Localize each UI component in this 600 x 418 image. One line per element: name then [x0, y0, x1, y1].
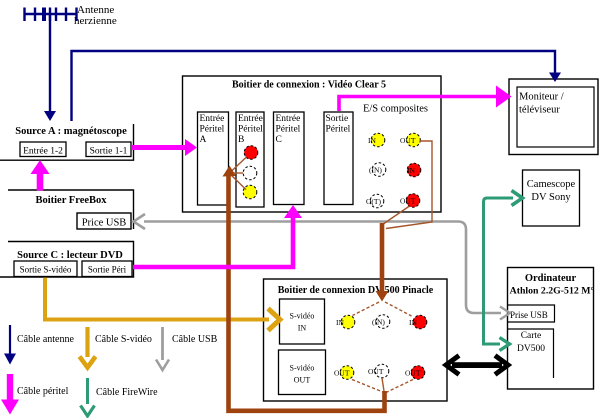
svg-text:OUT: OUT	[368, 367, 384, 376]
svg-text:Sortie 1-1: Sortie 1-1	[90, 147, 128, 157]
wire: magenta peritel cable Sortie Peri to VideoClear bottom	[133, 217, 293, 267]
svg-text:Péritel: Péritel	[238, 125, 263, 135]
connector red composite OUT right	[406, 194, 420, 208]
svg-text:Camescope: Camescope	[527, 179, 576, 190]
svg-text:Moniteur /: Moniteur /	[519, 92, 564, 103]
connector red RCA at Entree B	[244, 146, 258, 160]
svg-text:(IN): (IN)	[372, 318, 385, 327]
svg-text:Prise USB: Prise USB	[510, 310, 548, 320]
connector white RCA at Entree B	[243, 166, 257, 180]
svg-text:Sortie S-vidéo: Sortie S-vidéo	[20, 265, 72, 275]
connector yellow composite OUT right	[407, 133, 421, 147]
svg-text:B: B	[238, 135, 244, 145]
brown arrowhead up into VideoClear B jacks	[223, 166, 237, 177]
wire: magenta peritel cable Sortie Peritel to Moniteur	[339, 97, 497, 112]
svg-text:IN: IN	[409, 318, 417, 327]
svg-text:Péritel: Péritel	[326, 125, 351, 135]
svg-text:DV Sony: DV Sony	[531, 192, 571, 203]
connector white RCA DV500 (IN)	[376, 315, 390, 329]
box Moniteur / televiseur outer	[509, 79, 598, 155]
svg-text:Câble antenne: Câble antenne	[17, 334, 74, 345]
svg-text:E/S composites: E/S composites	[363, 104, 428, 115]
svg-text:Entrée 1-2: Entrée 1-2	[23, 147, 63, 157]
svg-text:Câble S-vidéo: Câble S-vidéo	[95, 334, 152, 345]
box Sortie 1-1	[86, 142, 131, 157]
svg-text:O(T): O(T)	[366, 197, 381, 206]
svg-text:(IN): (IN)	[369, 166, 382, 175]
svg-text:Sortie: Sortie	[326, 114, 349, 124]
gold arrowhead at S-video IN	[268, 309, 280, 331]
box Sortie S-video	[14, 261, 77, 277]
svg-text:OUT: OUT	[400, 197, 416, 206]
brown arrowhead down into DV500	[376, 291, 389, 302]
box Entree Peritel A	[198, 112, 229, 205]
box Moniteur / televiseur inner	[517, 87, 594, 147]
box Prise USB Ordinateur	[508, 305, 555, 322]
svg-text:IN: IN	[298, 324, 307, 333]
wire: magenta peritel cable Sortie 1-1 to Entree Peritel A	[132, 145, 186, 150]
svg-text:S-vidéo: S-vidéo	[290, 312, 315, 321]
wire: brown composite cable VideoClear OUT to DV500 IN	[353, 141, 433, 316]
legend: navy cable antenne arrow	[9, 325, 11, 355]
svg-text:Câble péritel: Câble péritel	[17, 386, 69, 397]
box Prise USB FreeBox	[77, 213, 131, 229]
box Entree 1-2	[20, 142, 66, 157]
svg-text:Athlon 2.2G-512 M°: Athlon 2.2G-512 M°	[510, 286, 595, 297]
box Boitier de connexion Video Clear 5	[183, 76, 442, 212]
svg-text:C: C	[276, 135, 282, 145]
svg-text:Source A : magnétoscope: Source A : magnétoscope	[15, 126, 127, 137]
svg-text:Péritel: Péritel	[276, 125, 301, 135]
box Source C lecteur DVD (partial)	[0, 242, 134, 278]
wire: navy antenna feed down to Source A	[49, 14, 51, 113]
svg-text:Entrée: Entrée	[200, 114, 225, 124]
black bidirectional cable DV500 to Ordinateur	[452, 362, 502, 368]
svg-text:Source C : lecteur DVD: Source C : lecteur DVD	[17, 250, 123, 261]
box Entree Peritel B	[236, 112, 264, 207]
wire: brown composite cable DV500 OUT to VideoClear Entree B	[229, 157, 414, 411]
svg-text:Ordinateur: Ordinateur	[525, 273, 577, 284]
svg-text:S-vidéo: S-vidéo	[290, 364, 315, 373]
connector yellow RCA at Entree B	[243, 185, 257, 199]
connector red composite IN right	[407, 163, 421, 177]
svg-text:Sortie Péri: Sortie Péri	[88, 265, 127, 275]
svg-text:IN: IN	[336, 318, 344, 327]
svg-text:herzienne: herzienne	[74, 15, 117, 27]
box S-video OUT	[279, 350, 326, 395]
box Boitier de connexion DV 500 Pinacle	[264, 279, 448, 401]
connector white composite (OUT) left	[370, 194, 384, 208]
wire: teal FireWire cable Camescope to Carte DV500	[484, 198, 514, 344]
connector yellow RCA DV500 IN	[341, 315, 355, 329]
connector yellow composite IN left	[371, 133, 385, 147]
connector yellow RCA DV500 OUT	[340, 366, 354, 380]
svg-text:téléviseur: téléviseur	[519, 105, 560, 116]
wire: gold S-video cable Source C to DV500	[45, 278, 269, 320]
box Entree Peritel C	[274, 112, 305, 205]
svg-text:Carte: Carte	[521, 331, 542, 341]
connector red RCA DV500 OUT	[411, 366, 425, 380]
box Camescope DV Sony	[523, 170, 580, 226]
svg-text:A: A	[200, 135, 207, 145]
gray arrowhead at Prise USB (FreeBox)	[134, 214, 146, 229]
legend: gray cable USB arrow	[161, 327, 164, 360]
svg-text:Entrée: Entrée	[238, 114, 263, 124]
legend: teal cable FireWire arrow	[86, 378, 89, 404]
connector white RCA DV500 OUT	[375, 364, 389, 378]
wire: gray USB cable FreeBox to Ordinateur	[144, 222, 501, 314]
box Carte DV500	[508, 329, 554, 378]
box Boitier FreeBox (partial)	[8, 190, 134, 229]
svg-text:Boitier FreeBox: Boitier FreeBox	[35, 195, 107, 206]
antenne hertzienne symbol	[24, 8, 78, 22]
box Ordinateur	[508, 268, 594, 390]
svg-text:Entrée: Entrée	[276, 114, 301, 124]
wire: navy RF cable Source A to Moniteur	[72, 51, 556, 121]
svg-text:Price USB: Price USB	[82, 218, 127, 229]
box Source A magnetoscope (partial)	[0, 124, 134, 160]
legend: gold cable S-video arrow	[85, 327, 89, 357]
svg-text:Boitier de connexion DV 500 Pi: Boitier de connexion DV 500 Pinacle	[278, 285, 434, 296]
svg-text:OUT: OUT	[405, 369, 421, 378]
svg-text:OUT: OUT	[334, 369, 350, 378]
wire: magenta peritel cable FreeBox to Source A	[37, 172, 44, 191]
svg-text:IN: IN	[407, 166, 415, 175]
legend: magenta cable peritel arrow	[7, 374, 13, 402]
gray arrowhead at Prise USB (Ordinateur)	[500, 307, 510, 320]
box Sortie Peritel	[324, 112, 353, 205]
svg-text:Boitier de connexion : Vidéo C: Boitier de connexion : Vidéo Clear 5	[232, 80, 386, 91]
svg-text:Péritel: Péritel	[200, 125, 225, 135]
svg-text:Câble USB: Câble USB	[172, 334, 218, 345]
connector white composite (IN) left	[372, 163, 386, 177]
svg-text:IN: IN	[368, 136, 376, 145]
svg-text:OUT: OUT	[294, 376, 311, 385]
box S-video IN	[280, 299, 325, 344]
svg-text:Câble FireWire: Câble FireWire	[96, 387, 158, 398]
connector red RCA DV500 IN	[413, 315, 427, 329]
svg-text:DV500: DV500	[517, 344, 545, 354]
svg-text:OUT: OUT	[400, 136, 416, 145]
box Sortie Peri	[82, 261, 132, 277]
